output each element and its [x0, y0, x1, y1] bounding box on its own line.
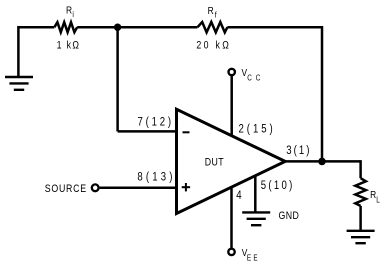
svg-text:DUT: DUT	[205, 157, 224, 169]
wire Vcc to pin 2	[230, 76, 233, 137]
svg-text:L: L	[376, 195, 380, 205]
terminal SOURCE circle	[92, 184, 99, 191]
wire top-left horizontal	[18, 26, 54, 29]
terminal Vcc circle	[229, 69, 235, 75]
wire to inverting input	[118, 130, 177, 133]
op-amp U1 DUT triangle	[177, 109, 286, 213]
wire right vertical feedback	[321, 26, 324, 161]
svg-text:R: R	[208, 5, 214, 17]
label Vee	[242, 247, 258, 262]
label Rf	[208, 5, 218, 19]
label Ri	[66, 5, 74, 20]
resistor Ri	[54, 22, 77, 32]
svg-text:1 kΩ: 1 kΩ	[57, 40, 80, 52]
op-amp minus sign	[183, 131, 190, 133]
resistor RL	[355, 178, 366, 206]
wire source to non-inverting input	[100, 187, 177, 190]
ground RL	[347, 231, 375, 243]
wire between Ri and Rf	[77, 26, 197, 29]
wire Rf to top-right corner	[227, 26, 322, 29]
wire pin 5 to ground	[254, 175, 257, 212]
svg-text:R: R	[370, 189, 376, 201]
ground GND (pin 5)	[242, 212, 270, 225]
wire op-amp output	[285, 160, 361, 163]
svg-text:4: 4	[236, 189, 241, 202]
terminal Vee circle	[228, 249, 234, 255]
node B output junction dot	[318, 158, 326, 166]
svg-text:R: R	[66, 5, 72, 17]
label Vcc	[242, 67, 261, 83]
svg-text:i: i	[72, 9, 74, 19]
wire RL to ground	[359, 206, 362, 231]
node A junction dot	[114, 24, 121, 31]
op-amp plus sign	[182, 183, 190, 191]
wire pin 4 to Vee	[230, 186, 233, 249]
wire node A down	[116, 27, 119, 131]
ground left	[5, 77, 33, 90]
svg-text:GND: GND	[279, 210, 299, 222]
resistor Rf	[198, 22, 228, 32]
label RL	[370, 189, 380, 204]
wire left vertical to ground	[17, 26, 20, 77]
wire output corner down to RL	[359, 160, 362, 178]
svg-text:SOURCE: SOURCE	[45, 183, 87, 195]
